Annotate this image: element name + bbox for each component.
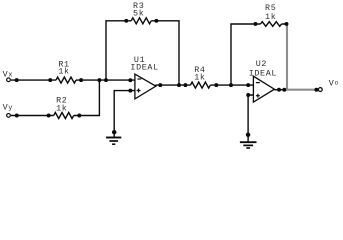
- svg-text:Vx: Vx: [3, 69, 14, 79]
- junction U2 out pin: [277, 88, 281, 92]
- terminal Vx: [7, 78, 11, 82]
- wire Vx to R1: [11, 79, 50, 81]
- junction node B junction R5: [229, 83, 233, 87]
- junction U1 minus pin: [128, 78, 132, 82]
- junction node R4 right: [214, 83, 218, 87]
- junction node R5 right: [285, 22, 289, 26]
- junction ground 2 connection: [246, 133, 251, 138]
- U1 inverting input marker: [137, 78, 141, 80]
- junction U2 minus pin: [246, 83, 250, 87]
- junction ground 1 connection: [112, 130, 117, 135]
- junction node R5 left: [254, 22, 258, 26]
- resistor R2: [54, 113, 74, 119]
- ground 2: [240, 142, 257, 148]
- junction node A junction R2: [97, 78, 101, 82]
- op-amp U2: [249, 59, 277, 102]
- wire U1 out to U2 minus: [155, 84, 185, 86]
- wire output to Vo (gray): [286, 89, 318, 91]
- junction node R1 left: [48, 78, 52, 82]
- junction node R2 right: [77, 114, 81, 118]
- svg-text:1k: 1k: [56, 103, 67, 113]
- U2 inverting input marker: [256, 82, 260, 84]
- junction U2 plus pin: [246, 93, 250, 97]
- svg-text:IDEAL: IDEAL: [249, 69, 277, 79]
- wire node up to R5: [231, 24, 256, 85]
- wire R2 up to node: [79, 80, 99, 115]
- resistor R4: [190, 82, 210, 88]
- resistor R5: [261, 22, 282, 27]
- junction node R3 right: [154, 19, 158, 23]
- U2 non-inverting input marker: [256, 94, 260, 98]
- wire Vy to R2: [11, 115, 49, 117]
- junction node Vy pin: [15, 114, 19, 118]
- wire U1 plus to ground: [114, 91, 135, 138]
- junction node R3 left: [124, 19, 128, 23]
- junction node R2 left: [47, 114, 51, 118]
- terminal Vo: [318, 88, 322, 92]
- U1 non-inverting input marker: [137, 89, 141, 93]
- wire U2 plus to ground: [248, 95, 253, 142]
- op-amp U1: [130, 55, 158, 99]
- junction node C junction: [282, 88, 286, 92]
- terminal Vy: [7, 114, 11, 118]
- svg-text:IDEAL: IDEAL: [130, 63, 158, 73]
- wire R1 to U1 minus: [81, 79, 135, 81]
- ground 1: [106, 138, 121, 145]
- svg-text:1k: 1k: [58, 67, 69, 77]
- wire R5 down to output (gray): [286, 25, 288, 90]
- resistor R3: [131, 18, 151, 24]
- junction node Vx pin: [15, 78, 19, 82]
- svg-text:U2: U2: [256, 59, 267, 69]
- wire U2 out: [274, 89, 286, 91]
- svg-text:1k: 1k: [194, 72, 205, 82]
- junction node B junction R3: [177, 83, 181, 87]
- svg-text:5k: 5k: [133, 9, 144, 19]
- junction node R1 right: [79, 78, 83, 82]
- junction node Vo pin: [314, 88, 318, 92]
- svg-text:Vy: Vy: [3, 102, 14, 112]
- svg-text:1k: 1k: [265, 12, 276, 22]
- junction U1 out pin: [158, 83, 162, 87]
- wire node up to R3: [106, 21, 126, 80]
- junction node R4 left: [183, 83, 187, 87]
- junction node A junction R3: [104, 78, 108, 82]
- junction U1 plus pin: [128, 89, 132, 93]
- resistor R1: [56, 77, 76, 83]
